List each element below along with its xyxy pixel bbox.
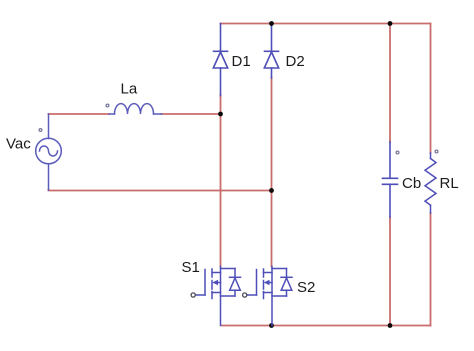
mosfet S2 bbox=[247, 267, 292, 326]
polarity dot of Cb bbox=[396, 151, 399, 154]
label S2 bbox=[297, 279, 315, 296]
wire inductor to node A bbox=[162, 113, 221, 115]
wire node A to S1 drain bbox=[220, 114, 222, 267]
label Vac bbox=[6, 136, 31, 153]
svg-text:S2: S2 bbox=[297, 279, 315, 296]
wire top bus bbox=[221, 23, 431, 25]
mosfet S1 bbox=[196, 267, 241, 326]
label D2 bbox=[286, 53, 305, 70]
junction Cb bottom bbox=[388, 323, 393, 328]
polarity dot of La bbox=[106, 104, 109, 107]
junction S2 bottom bbox=[269, 323, 274, 328]
wire Vac top to inductor bbox=[49, 113, 110, 115]
arrow of S1 body terminal bbox=[213, 280, 219, 286]
label D1 bbox=[232, 53, 251, 70]
svg-text:S1: S1 bbox=[182, 259, 200, 276]
label RL bbox=[440, 175, 459, 192]
inductor La bbox=[109, 104, 162, 114]
polarity dot of Vac bbox=[39, 129, 42, 132]
node B junction (Vac return/D2/S2) bbox=[269, 188, 274, 193]
svg-text:La: La bbox=[121, 81, 138, 98]
voltage source Vac bbox=[36, 114, 62, 190]
label La bbox=[121, 81, 138, 98]
gate terminal circle of S2 bbox=[243, 293, 247, 297]
svg-text:D1: D1 bbox=[232, 53, 251, 70]
label S1 bbox=[182, 259, 200, 276]
wire bottom bus bbox=[222, 325, 431, 327]
capacitor Cb bbox=[383, 142, 398, 217]
svg-text:Vac: Vac bbox=[6, 136, 31, 153]
diode D1 bbox=[213, 24, 227, 96]
wire right branch lower (RL to bottom) bbox=[430, 213, 432, 326]
arrow of S2 body terminal bbox=[264, 280, 270, 286]
svg-text:RL: RL bbox=[440, 175, 459, 192]
node A junction (inductor/D1/S1) bbox=[218, 112, 223, 117]
wire Vac bottom to node B bbox=[49, 190, 272, 191]
wire D2 anode to node B to S2 drain bbox=[271, 78, 273, 267]
wire right branch upper (RL drop) bbox=[430, 24, 432, 154]
wire D1 anode to node A bbox=[220, 95, 222, 114]
polarity dot of RL bbox=[435, 150, 438, 153]
wire Cb branch lower bbox=[389, 217, 391, 326]
svg-text:Cb: Cb bbox=[402, 175, 421, 192]
wire Cb branch upper bbox=[389, 24, 391, 143]
junction Cb top bbox=[388, 21, 393, 26]
resistor RL bbox=[425, 153, 436, 213]
junction D2 top bbox=[269, 21, 274, 26]
gate terminal circle of S1 bbox=[191, 293, 195, 297]
diode D2 bbox=[264, 24, 278, 79]
svg-text:D2: D2 bbox=[286, 53, 305, 70]
label Cb bbox=[402, 175, 421, 192]
